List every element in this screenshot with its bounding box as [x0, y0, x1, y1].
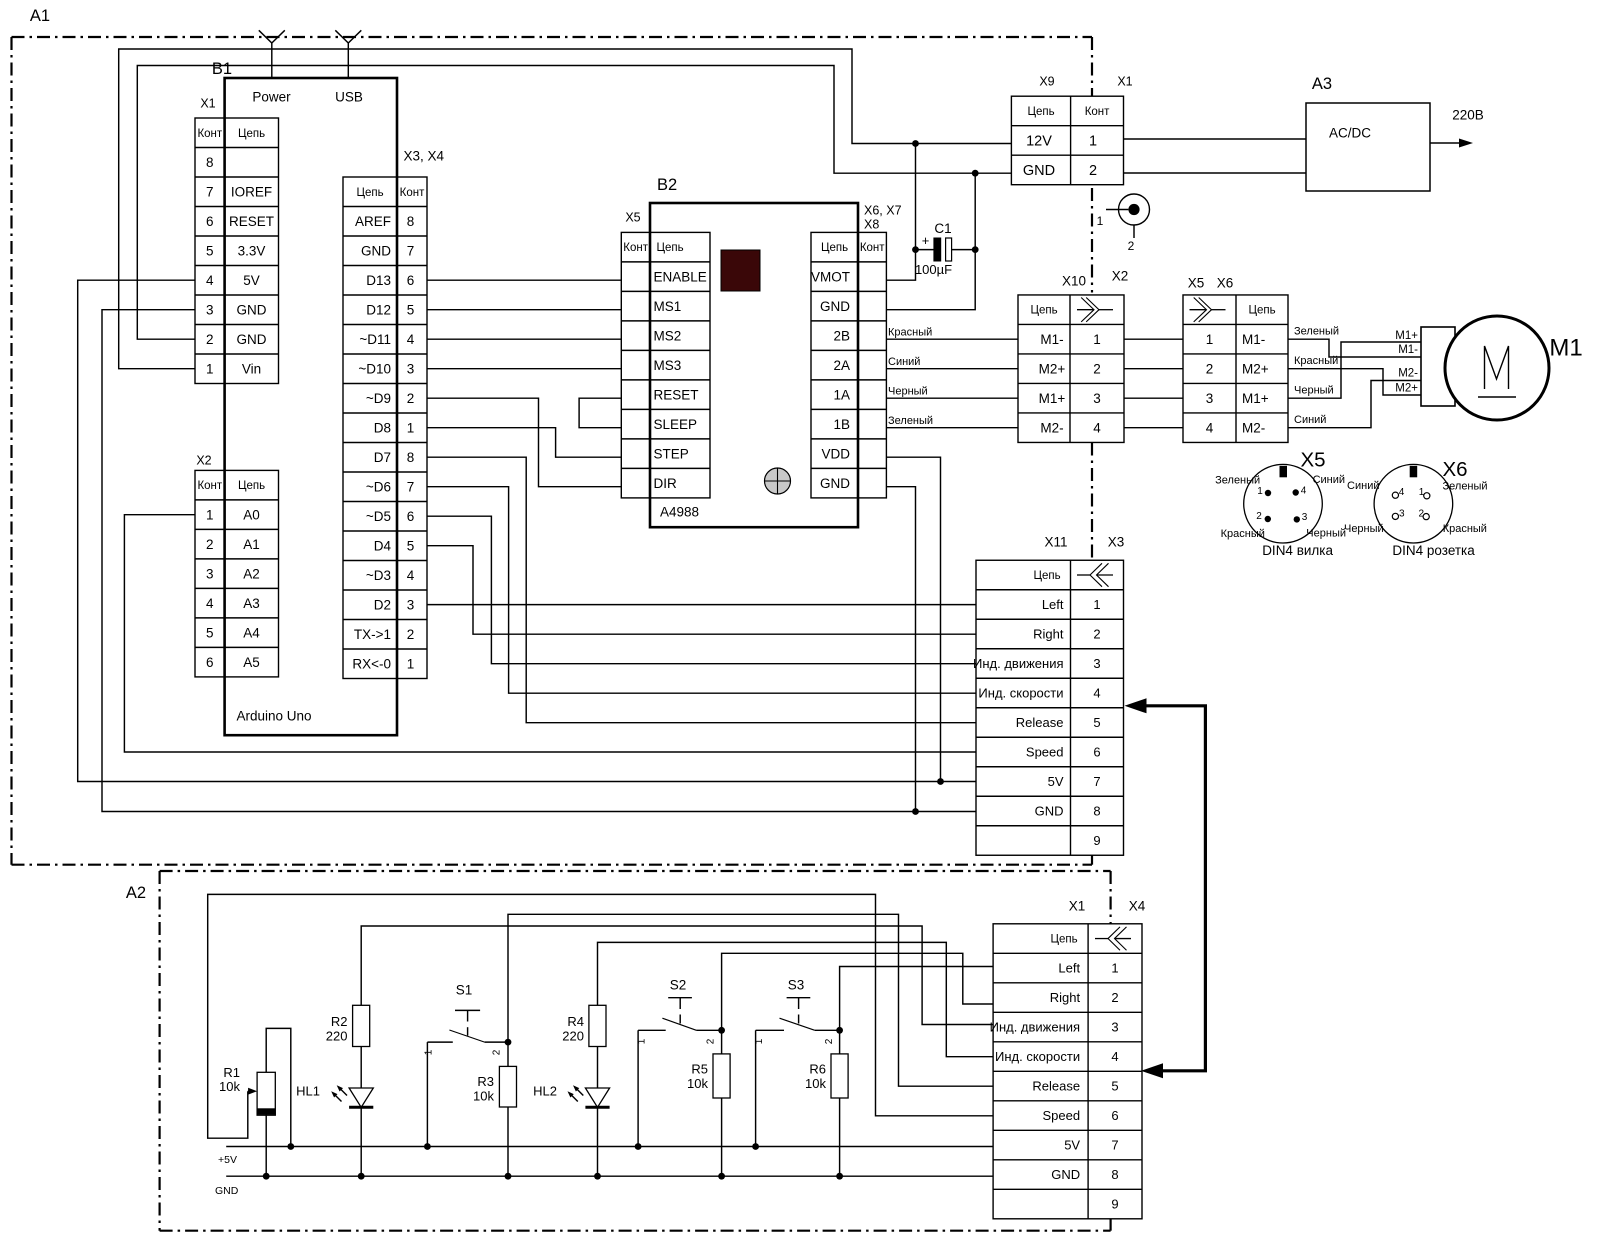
svg-text:A0: A0	[243, 507, 260, 522]
svg-text:1: 1	[407, 656, 415, 671]
DIN4 plug X5 diagram	[1215, 464, 1346, 558]
connector X6, X7, X8 pin table (B2 power/motor)	[811, 232, 886, 498]
svg-text:4: 4	[1093, 420, 1101, 435]
svg-text:X3: X3	[1108, 535, 1125, 550]
A3 AC/DC converter box	[1306, 103, 1430, 191]
svg-text:R4: R4	[567, 1014, 584, 1029]
svg-text:1: 1	[1089, 134, 1097, 150]
svg-text:TX->1: TX->1	[354, 627, 391, 642]
svg-text:Зеленый: Зеленый	[888, 415, 933, 427]
B2 trimmer potentiometer	[765, 468, 791, 494]
svg-text:2: 2	[492, 1049, 503, 1055]
svg-text:Красный: Красный	[1221, 528, 1265, 540]
svg-text:M1+: M1+	[1395, 330, 1418, 342]
svg-text:8: 8	[1093, 804, 1100, 819]
svg-text:Конт: Конт	[197, 480, 222, 492]
svg-text:D4: D4	[374, 538, 392, 553]
svg-text:MS3: MS3	[654, 358, 682, 373]
resistor R6 10k	[805, 1030, 848, 1179]
power jack X1 symbol	[1097, 194, 1150, 253]
wire VMOT to 12V net	[886, 144, 915, 281]
svg-text:X5: X5	[1188, 276, 1205, 291]
svg-text:Vin: Vin	[242, 361, 261, 376]
svg-text:2: 2	[206, 537, 214, 552]
svg-text:6: 6	[407, 509, 415, 524]
svg-text:220: 220	[562, 1029, 584, 1044]
svg-text:9: 9	[1111, 1197, 1118, 1212]
svg-text:3: 3	[407, 361, 415, 376]
B1 Arduino Uno box	[225, 78, 397, 735]
B2 A4988 driver box	[650, 203, 858, 527]
svg-text:Зеленый: Зеленый	[1443, 480, 1488, 492]
connector X5/X6 pin table	[1183, 295, 1288, 443]
svg-text:2: 2	[1111, 990, 1118, 1005]
wire X2 pin1 to X5 pin1	[1124, 338, 1183, 340]
svg-text:8: 8	[407, 450, 415, 465]
svg-text:2: 2	[1206, 361, 1214, 376]
svg-text:R5: R5	[691, 1062, 708, 1077]
svg-text:Инд. скорости: Инд. скорости	[995, 1049, 1080, 1064]
connector X10/X2 pin table	[1018, 295, 1124, 443]
X10 connector symbol	[1077, 309, 1094, 311]
svg-text:Release: Release	[1016, 715, 1064, 730]
svg-text:7: 7	[407, 479, 415, 494]
svg-text:RESET: RESET	[654, 387, 699, 402]
svg-text:ENABLE: ENABLE	[654, 269, 707, 284]
svg-text:Инд. движения: Инд. движения	[973, 656, 1064, 671]
svg-text:10k: 10k	[473, 1089, 494, 1104]
svg-text:A3: A3	[243, 596, 260, 611]
switch S1	[424, 983, 512, 1056]
svg-text:R1: R1	[223, 1065, 240, 1080]
svg-text:3: 3	[1399, 509, 1405, 520]
switch S3	[754, 978, 843, 1045]
svg-text:6: 6	[407, 273, 415, 288]
wire ~D6 to Инд. скорости	[427, 487, 976, 694]
wire R1 wiper to X4 Speed	[208, 894, 993, 1138]
wire GND net (X1 pin3 to X11 pin8)	[102, 310, 976, 815]
svg-text:10k: 10k	[687, 1076, 708, 1091]
svg-text:Speed: Speed	[1026, 745, 1064, 760]
wire D8 to STEP	[427, 428, 621, 458]
svg-text:RESET: RESET	[229, 214, 274, 229]
svg-text:X5: X5	[625, 210, 640, 224]
svg-text:R2: R2	[331, 1014, 348, 1029]
svg-text:X6: X6	[1442, 458, 1467, 481]
wire D12 to MS1	[427, 309, 621, 311]
svg-text:Цепь: Цепь	[1050, 934, 1077, 946]
svg-text:1: 1	[206, 361, 214, 376]
svg-text:7: 7	[1111, 1138, 1118, 1153]
svg-text:Цепь: Цепь	[356, 187, 383, 199]
svg-text:3: 3	[407, 597, 415, 612]
svg-text:M2+: M2+	[1242, 361, 1269, 376]
svg-text:M1-: M1-	[1242, 332, 1265, 347]
wire X9 pin2 to A3	[1124, 172, 1307, 174]
svg-text:3: 3	[1093, 391, 1101, 406]
wire ~D11 to MS2	[427, 338, 621, 340]
svg-text:6: 6	[206, 214, 214, 229]
svg-text:9: 9	[1093, 833, 1100, 848]
svg-text:1: 1	[1206, 332, 1214, 347]
svg-text:5V: 5V	[1064, 1138, 1080, 1153]
svg-text:DIN4 розетка: DIN4 розетка	[1392, 543, 1475, 558]
svg-text:1B: 1B	[833, 417, 850, 432]
svg-text:X11: X11	[1044, 535, 1067, 550]
wire S1 pin2 to X4 Release	[508, 914, 993, 1086]
svg-text:4: 4	[1301, 486, 1307, 497]
svg-text:VDD: VDD	[821, 446, 850, 461]
svg-text:AC/DC: AC/DC	[1329, 126, 1371, 141]
svg-text:2B: 2B	[833, 328, 850, 343]
svg-text:1: 1	[1093, 332, 1101, 347]
svg-text:5: 5	[407, 538, 415, 553]
svg-text:X1: X1	[200, 96, 215, 110]
svg-text:2: 2	[1093, 361, 1101, 376]
svg-text:D7: D7	[374, 450, 391, 465]
svg-text:VMOT: VMOT	[811, 269, 850, 284]
wire A0 to Speed	[124, 515, 976, 752]
svg-text:10k: 10k	[219, 1079, 240, 1094]
svg-text:1: 1	[1419, 487, 1425, 498]
wire 2A to X10 M2+ (Синий)	[886, 356, 1018, 369]
X4 connector symbol	[1095, 938, 1108, 940]
svg-text:4: 4	[407, 332, 415, 347]
svg-text:DIN4 вилка: DIN4 вилка	[1262, 543, 1333, 558]
svg-text:6: 6	[206, 655, 214, 670]
svg-text:B1: B1	[212, 60, 232, 78]
svg-text:D8: D8	[374, 420, 391, 435]
svg-text:2: 2	[1419, 508, 1425, 519]
svg-text:8: 8	[1111, 1167, 1118, 1182]
connector X9/X1 pin table	[1011, 96, 1123, 185]
wire R4 to X4 Инд. скорости	[598, 942, 994, 1056]
wire S3 pin2 to X4 Left	[840, 967, 994, 1031]
svg-text:A1: A1	[30, 7, 50, 25]
resistor R1 potentiometer 10k	[219, 1065, 275, 1115]
svg-text:M1-: M1-	[1040, 332, 1063, 347]
wire ~D5 to Инд. движения	[427, 516, 976, 664]
LED HL2	[533, 1047, 609, 1180]
svg-text:+: +	[922, 233, 930, 248]
svg-text:100µF: 100µF	[915, 262, 952, 277]
svg-text:X9: X9	[1039, 74, 1054, 88]
A1 block boundary	[12, 37, 1093, 865]
connector X1 pin table (B1 Power)	[195, 118, 279, 384]
svg-text:S1: S1	[456, 983, 473, 998]
wire 1B to X10 M2- (Зеленый)	[886, 415, 1018, 428]
svg-text:Конт: Конт	[400, 187, 425, 199]
svg-text:5V: 5V	[243, 273, 260, 288]
resistor R3 10k	[473, 1042, 516, 1180]
svg-text:X1: X1	[1069, 899, 1086, 914]
wire S2 pin1 to +5V	[635, 1030, 642, 1150]
wire VDD to 5V net	[886, 457, 940, 781]
svg-text:Инд. скорости: Инд. скорости	[978, 686, 1063, 701]
wire R2 to X4 Инд. движения	[361, 926, 993, 1025]
svg-text:Черный: Черный	[888, 386, 928, 398]
svg-text:Черный: Черный	[1344, 523, 1384, 535]
svg-text:2A: 2A	[833, 358, 850, 373]
svg-text:DIR: DIR	[654, 476, 678, 491]
svg-text:X6: X6	[1217, 276, 1234, 291]
svg-text:1: 1	[424, 1049, 435, 1055]
svg-text:3: 3	[1302, 512, 1308, 523]
svg-text:AREF: AREF	[355, 214, 391, 229]
svg-text:Красный: Красный	[1294, 355, 1338, 367]
svg-text:IOREF: IOREF	[231, 184, 272, 199]
svg-text:GND: GND	[1023, 163, 1055, 179]
svg-text:Цепь: Цепь	[238, 128, 265, 140]
X11 connector symbol	[1077, 574, 1090, 576]
wire R1 bottom to GND	[263, 1114, 270, 1179]
svg-text:220: 220	[326, 1029, 348, 1044]
wire X2 pin3 to X5 pin3	[1124, 397, 1183, 399]
wire X6 pin4 to motor M2- (Синий)	[1288, 368, 1421, 428]
wire X6 pin1 to motor M1- (Зеленый)	[1288, 326, 1421, 357]
LED HL1	[296, 1047, 373, 1180]
svg-text:Release: Release	[1032, 1079, 1080, 1094]
svg-text:2: 2	[407, 627, 415, 642]
HL1 light arrows	[330, 1084, 347, 1102]
svg-text:RX<-0: RX<-0	[352, 656, 391, 671]
svg-text:220В: 220В	[1452, 108, 1484, 123]
svg-text:Цепь: Цепь	[1027, 106, 1054, 118]
svg-text:B2: B2	[657, 176, 677, 194]
svg-text:Left: Left	[1042, 597, 1064, 612]
GND rail	[215, 1176, 993, 1197]
svg-text:1: 1	[206, 507, 214, 522]
wire D4 to Right	[427, 546, 976, 635]
svg-text:C1: C1	[934, 221, 951, 236]
wire Vin / 12V net	[119, 49, 1012, 369]
wire X9 pin1 to A3	[1124, 138, 1307, 140]
svg-text:A4: A4	[243, 625, 260, 640]
svg-text:Цепь: Цепь	[1030, 305, 1057, 317]
connector X11/X3 pin table	[973, 560, 1124, 855]
wire R1 top to +5V	[266, 1028, 294, 1150]
svg-text:1: 1	[1257, 486, 1263, 497]
svg-text:Left: Left	[1058, 961, 1080, 976]
wire X2 pin4 to X5 pin4	[1124, 427, 1183, 429]
svg-text:A2: A2	[243, 566, 260, 581]
svg-text:1: 1	[1097, 214, 1104, 228]
DIN4 socket X6 diagram	[1344, 464, 1488, 558]
svg-text:3: 3	[1206, 391, 1214, 406]
svg-text:HL2: HL2	[533, 1084, 557, 1099]
wire RESET to SLEEP jumper	[579, 398, 621, 428]
wire X2 pin2 to X5 pin2	[1124, 368, 1183, 370]
svg-text:GND: GND	[237, 302, 267, 317]
svg-text:Конт: Конт	[623, 242, 648, 254]
svg-text:GND: GND	[1051, 1167, 1080, 1182]
svg-text:Speed: Speed	[1043, 1108, 1081, 1123]
svg-text:4: 4	[1399, 487, 1405, 498]
svg-text:Конт: Конт	[860, 242, 885, 254]
svg-text:GND: GND	[820, 299, 850, 314]
connector X2 pin table (B1 analog)	[195, 470, 279, 677]
svg-text:A3: A3	[1312, 75, 1332, 93]
svg-text:Цепь: Цепь	[238, 480, 265, 492]
wire D7 to Release	[427, 457, 976, 723]
svg-text:+5V: +5V	[218, 1154, 237, 1166]
svg-text:A2: A2	[126, 884, 146, 902]
svg-text:2: 2	[206, 332, 214, 347]
svg-text:Конт: Конт	[1085, 106, 1110, 118]
B2 chip die (dark square)	[721, 250, 760, 291]
motor M1	[1445, 316, 1549, 420]
svg-text:2: 2	[706, 1038, 717, 1044]
svg-text:SLEEP: SLEEP	[654, 417, 698, 432]
svg-text:8: 8	[407, 214, 415, 229]
svg-text:2: 2	[1089, 163, 1097, 179]
svg-text:A1: A1	[243, 537, 260, 552]
svg-text:5V: 5V	[1048, 774, 1064, 789]
svg-text:4: 4	[206, 273, 214, 288]
svg-text:1: 1	[407, 420, 415, 435]
svg-text:2: 2	[1256, 511, 1262, 522]
svg-text:1A: 1A	[833, 387, 850, 402]
svg-text:GND: GND	[820, 476, 850, 491]
svg-text:M2+: M2+	[1395, 383, 1418, 395]
svg-text:GND: GND	[237, 332, 267, 347]
svg-text:GND: GND	[1035, 804, 1064, 819]
svg-text:3: 3	[206, 302, 214, 317]
svg-text:X6, X7: X6, X7	[864, 203, 902, 217]
svg-text:X5: X5	[1300, 449, 1325, 472]
svg-text:Черный: Черный	[1294, 385, 1334, 397]
capacitor C1 100uF	[912, 221, 979, 277]
svg-text:~D10: ~D10	[358, 361, 391, 376]
svg-text:8: 8	[206, 155, 214, 170]
Power connector antenna	[259, 30, 285, 78]
svg-text:Right: Right	[1050, 990, 1081, 1005]
svg-text:6: 6	[1093, 745, 1100, 760]
svg-text:X3, X4: X3, X4	[403, 149, 444, 164]
svg-text:3: 3	[206, 566, 214, 581]
wire 2B to X10 M1- (Красный)	[886, 327, 1018, 340]
svg-text:7: 7	[407, 243, 415, 258]
svg-text:X2: X2	[196, 453, 211, 467]
wire B2 GND pin to GND net	[886, 173, 975, 310]
svg-text:Цепь: Цепь	[1033, 570, 1060, 582]
svg-text:10k: 10k	[805, 1076, 826, 1091]
svg-text:Зеленый: Зеленый	[1215, 474, 1260, 486]
A2 block boundary	[160, 871, 1111, 1231]
resistor R2 220	[326, 1005, 370, 1046]
svg-text:S2: S2	[670, 978, 687, 993]
svg-text:Черный: Черный	[1306, 528, 1346, 540]
wire GND net (X1 pin2 to X9 pin2)	[137, 66, 1011, 340]
svg-text:X10: X10	[1062, 274, 1086, 289]
svg-text:2: 2	[824, 1038, 835, 1044]
svg-text:Цепь: Цепь	[1248, 305, 1275, 317]
svg-text:12V: 12V	[1026, 134, 1052, 150]
svg-text:1: 1	[1111, 961, 1118, 976]
svg-text:M1+: M1+	[1242, 391, 1269, 406]
svg-text:M1+: M1+	[1039, 391, 1066, 406]
svg-text:Синий: Синий	[1313, 474, 1345, 486]
svg-text:X2: X2	[1112, 269, 1129, 284]
wire D2 to Left	[427, 604, 976, 606]
svg-text:Right: Right	[1033, 627, 1064, 642]
svg-text:M1: M1	[1549, 334, 1582, 361]
svg-text:Инд. движения: Инд. движения	[990, 1020, 1081, 1035]
svg-text:X8: X8	[864, 217, 879, 231]
svg-text:USB: USB	[335, 90, 363, 105]
svg-text:5: 5	[206, 625, 214, 640]
USB connector antenna	[335, 30, 361, 78]
svg-text:1: 1	[1093, 597, 1100, 612]
svg-text:Красный: Красный	[1443, 523, 1487, 535]
svg-text:2: 2	[1093, 627, 1100, 642]
svg-text:MS2: MS2	[654, 328, 682, 343]
svg-text:M2+: M2+	[1039, 361, 1066, 376]
svg-text:~D9: ~D9	[366, 391, 391, 406]
wire S1 pin1 to +5V	[424, 1042, 431, 1150]
svg-text:4: 4	[206, 596, 214, 611]
wire S3 pin1 to +5V	[752, 1030, 759, 1150]
svg-text:R3: R3	[477, 1074, 494, 1089]
svg-text:R6: R6	[809, 1062, 826, 1077]
svg-text:3: 3	[1093, 656, 1100, 671]
svg-text:D2: D2	[374, 597, 391, 612]
svg-text:HL1: HL1	[296, 1084, 320, 1099]
svg-text:A4988: A4988	[660, 505, 699, 520]
svg-text:7: 7	[206, 184, 214, 199]
connector X5 pin table (B2 logic)	[621, 232, 710, 498]
svg-text:GND: GND	[361, 243, 391, 258]
svg-text:6: 6	[1111, 1108, 1118, 1123]
resistor R4 220	[562, 1005, 606, 1046]
svg-text:M2-: M2-	[1242, 420, 1265, 435]
svg-text:D13: D13	[366, 273, 391, 288]
switch S2	[637, 978, 725, 1045]
svg-text:Зеленый: Зеленый	[1294, 326, 1339, 338]
svg-text:STEP: STEP	[654, 446, 689, 461]
svg-text:Arduino Uno: Arduino Uno	[237, 709, 312, 724]
svg-text:4: 4	[1206, 420, 1214, 435]
wire 5V net (X1 pin4 to X11 pin7)	[78, 280, 976, 785]
motor M1 terminal box	[1421, 327, 1455, 406]
svg-text:5: 5	[1093, 715, 1100, 730]
svg-text:D12: D12	[366, 302, 391, 317]
svg-text:2: 2	[1128, 239, 1135, 253]
svg-text:GND: GND	[215, 1185, 239, 1197]
svg-text:S3: S3	[788, 978, 805, 993]
svg-text:~D6: ~D6	[366, 479, 391, 494]
svg-text:Синий: Синий	[1294, 414, 1326, 426]
wire S2 pin2 to X4 Right	[722, 953, 994, 1030]
svg-text:4: 4	[1111, 1049, 1118, 1064]
svg-text:~D3: ~D3	[366, 568, 391, 583]
svg-text:Цепь: Цепь	[821, 242, 848, 254]
wire 1A to X10 M1+ (Черный)	[886, 386, 1018, 399]
connector X3, X4 pin table (B1 digital)	[343, 177, 427, 679]
X5/X6 connector symbol	[1190, 309, 1207, 311]
HL2 light arrows	[566, 1084, 583, 1102]
svg-text:Power: Power	[252, 90, 291, 105]
connector X1/X4 pin table (remote)	[990, 924, 1142, 1219]
R1 wiper arrow	[248, 1088, 257, 1095]
svg-text:3: 3	[1111, 1020, 1118, 1035]
wire X6 pin2 to motor M2+ (Красный)	[1288, 355, 1421, 395]
svg-text:Синий: Синий	[1347, 480, 1379, 492]
svg-text:7: 7	[1093, 774, 1100, 789]
wire ~D10 to MS3	[427, 368, 621, 370]
svg-text:X4: X4	[1129, 899, 1146, 914]
svg-text:~D11: ~D11	[359, 332, 391, 347]
